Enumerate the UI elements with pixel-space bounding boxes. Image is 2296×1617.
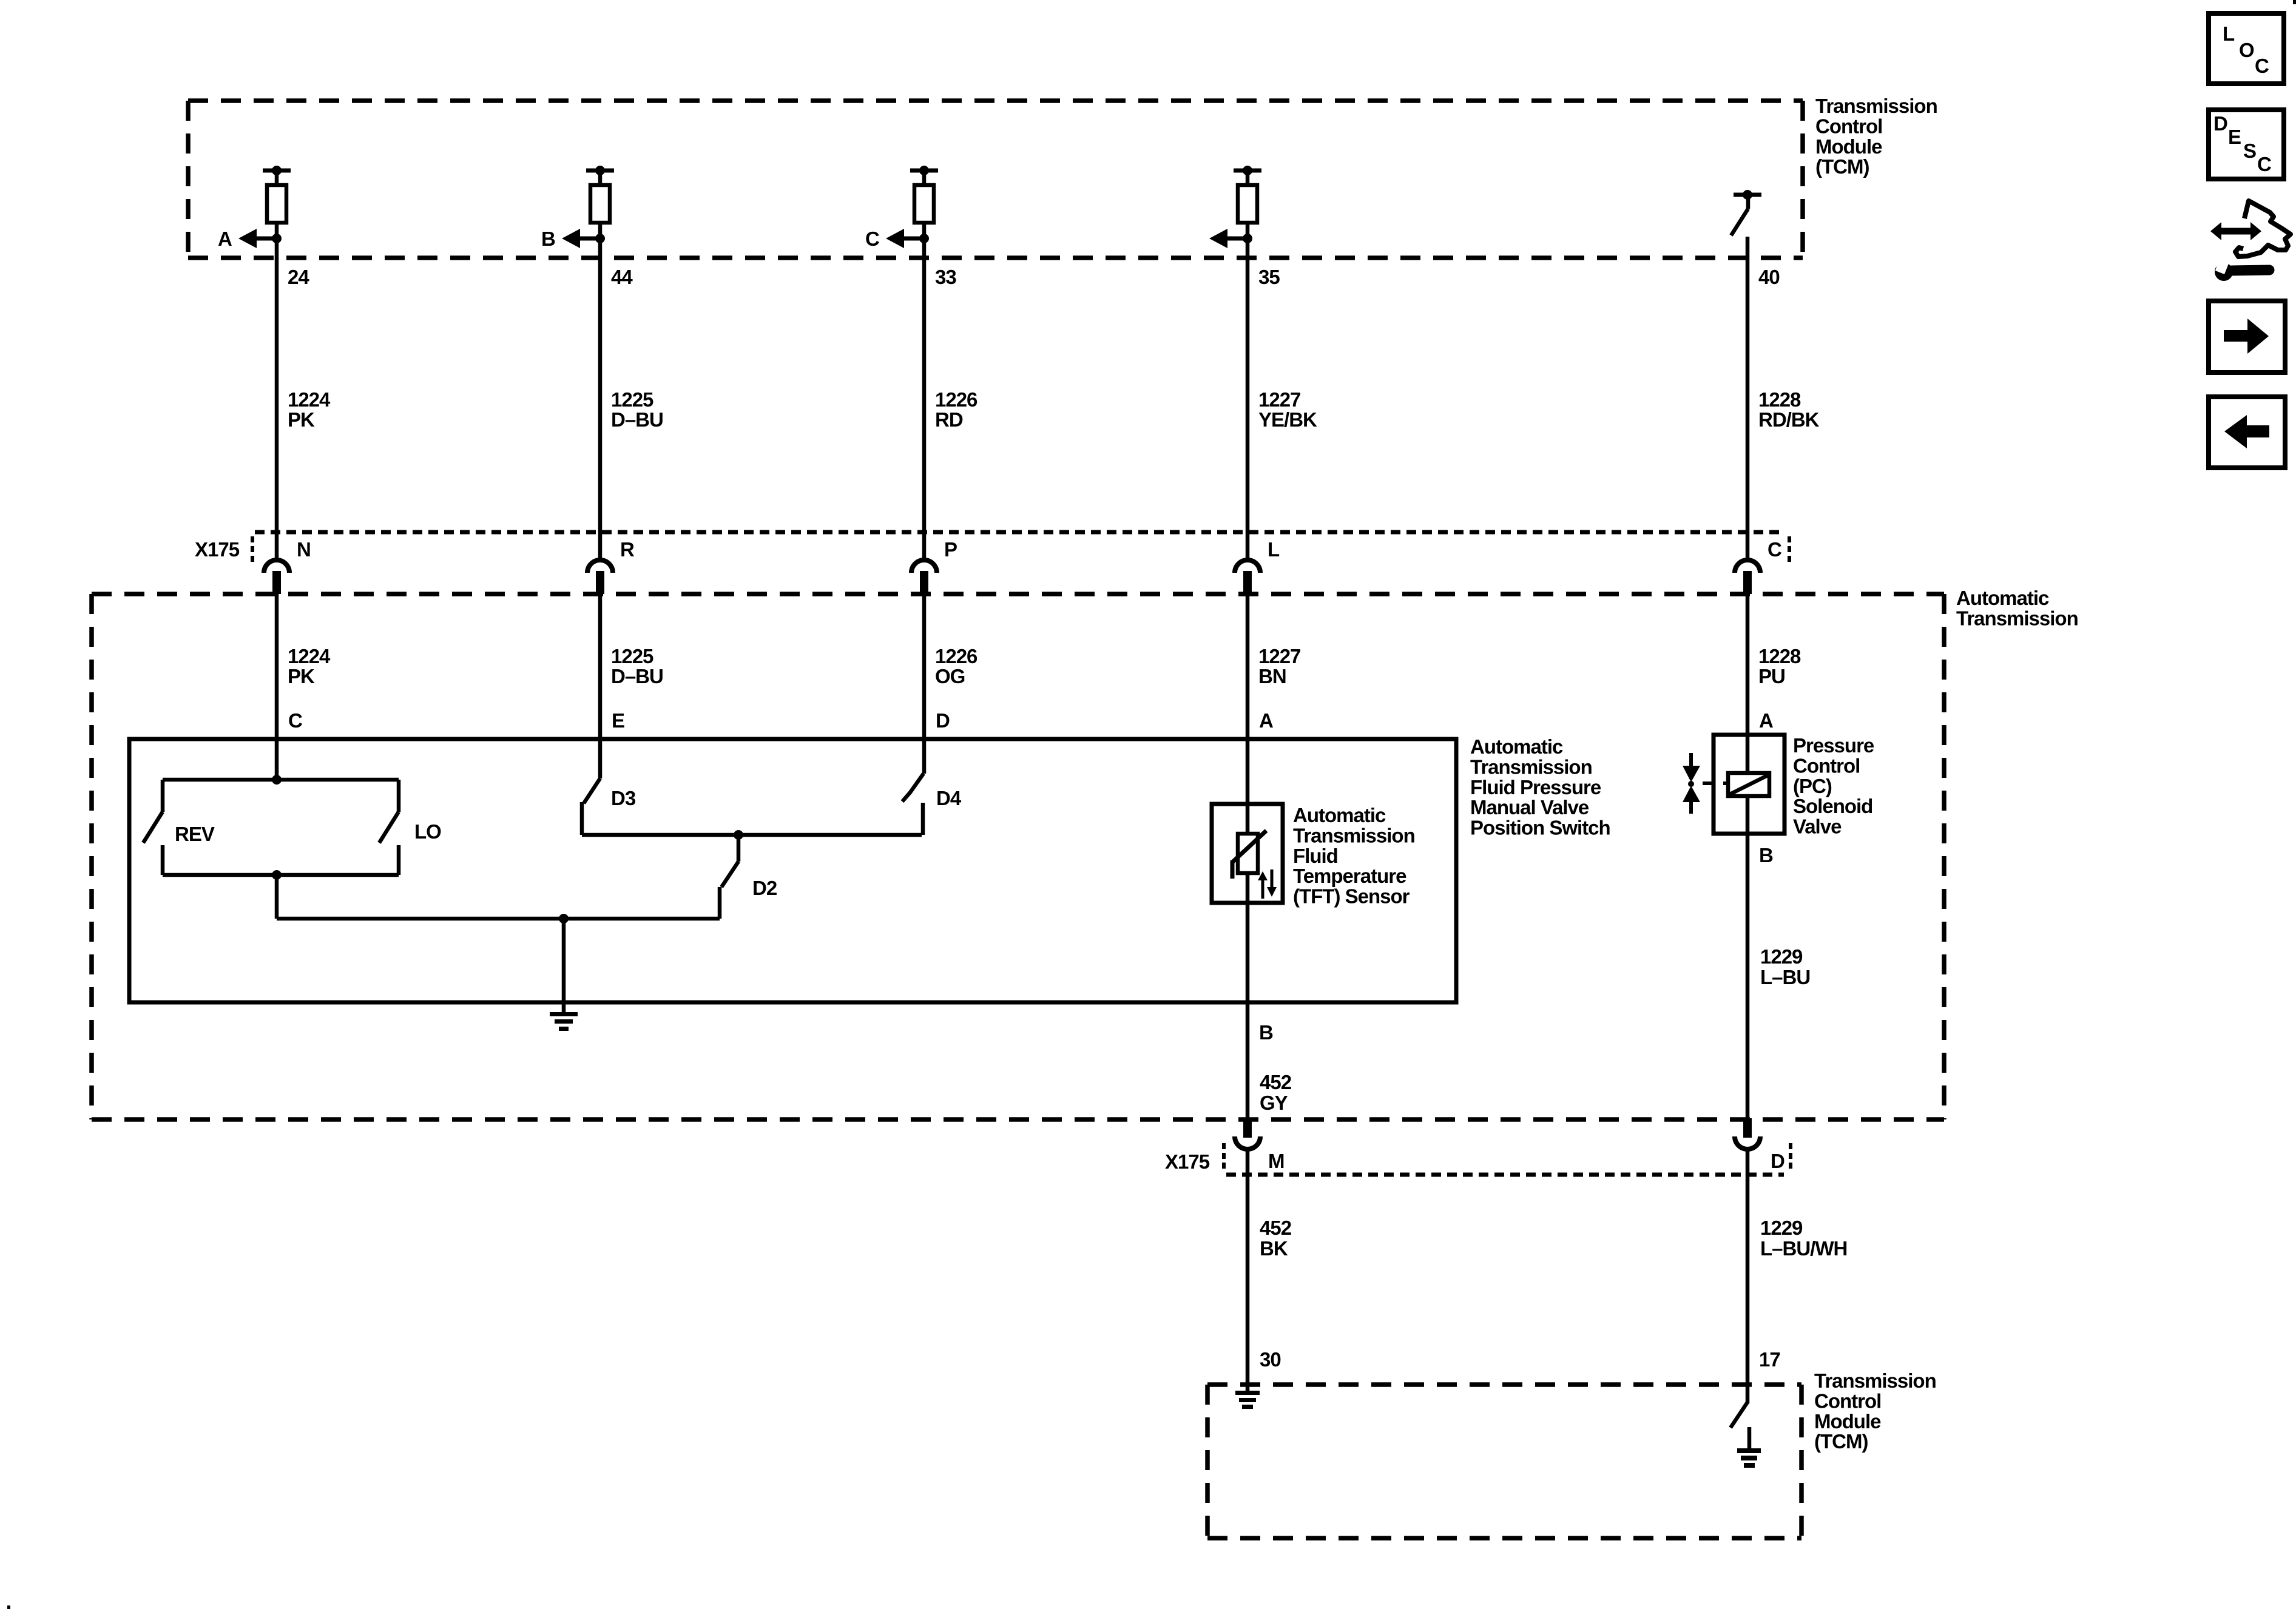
svg-text:PU: PU xyxy=(1758,665,1785,687)
connector X175 terminal M (pin + socket arc) xyxy=(1235,1118,1260,1149)
svg-text:Module: Module xyxy=(1815,135,1882,158)
signal arrow B xyxy=(562,229,605,248)
label: Automatic Transmission Fluid Pressure Manual Valve Position Switch xyxy=(1470,735,1610,839)
svg-text:RD/BK: RD/BK xyxy=(1758,408,1820,431)
svg-text:452: 452 xyxy=(1260,1217,1292,1239)
TCM module box (top, dashed) xyxy=(188,101,1803,258)
svg-text:C: C xyxy=(865,228,879,250)
svg-text:1227: 1227 xyxy=(1258,645,1300,667)
connector X175 terminal R (socket arc + pin) xyxy=(587,560,613,594)
wire label 1224 PK xyxy=(288,388,331,431)
svg-text:D: D xyxy=(936,709,950,732)
connector X175 terminal N (socket arc + pin) xyxy=(264,560,289,594)
svg-text:D: D xyxy=(2213,112,2227,135)
switch D3 xyxy=(582,778,600,835)
wire label 452 BK xyxy=(1260,1217,1292,1260)
wire label 1228 PU (inside transmission) xyxy=(1758,645,1801,687)
svg-text:Automatic: Automatic xyxy=(1293,804,1386,826)
svg-text:O: O xyxy=(2239,39,2254,61)
Automatic Transmission box (dashed) xyxy=(92,594,1944,1119)
wire label 1224 PK (inside transmission) xyxy=(288,645,331,687)
svg-text:C: C xyxy=(2255,55,2269,77)
switch D4 xyxy=(902,774,923,835)
svg-text:A: A xyxy=(218,228,232,250)
svg-text:PK: PK xyxy=(288,665,315,687)
svg-text:(TCM): (TCM) xyxy=(1815,155,1869,178)
svg-text:L: L xyxy=(2223,22,2235,45)
svg-text:33: 33 xyxy=(935,266,956,288)
svg-text:E: E xyxy=(2228,126,2241,148)
svg-text:Control: Control xyxy=(1815,115,1882,137)
svg-text:(TCM): (TCM) xyxy=(1814,1430,1868,1453)
svg-text:D4: D4 xyxy=(936,787,962,809)
connector X175 terminal D (pin + socket arc) xyxy=(1735,1118,1760,1149)
svg-text:BN: BN xyxy=(1258,665,1286,687)
label: Transmission Control Module (TCM) top xyxy=(1815,95,1937,178)
connector X175 row (upper) dotted line xyxy=(255,530,1784,535)
svg-text:17: 17 xyxy=(1759,1348,1780,1371)
svg-text:R: R xyxy=(620,538,635,561)
wire 1227 BN (transmission side) xyxy=(1246,594,1250,1118)
svg-text:RD: RD xyxy=(935,408,963,431)
switch D2 xyxy=(720,835,738,919)
resistor (TCM driver, wire 1225) xyxy=(586,166,614,223)
svg-text:Valve: Valve xyxy=(1793,815,1842,838)
svg-text:LO: LO xyxy=(414,820,441,843)
wire 1225 D-BU (transmission side) xyxy=(598,594,603,778)
wire label 1229 L-BU xyxy=(1760,945,1810,988)
icon: next arrow box xyxy=(2209,301,2285,373)
wire 452 BK (X175 to TCM) xyxy=(1246,1150,1250,1391)
svg-text:44: 44 xyxy=(611,266,633,288)
svg-text:1229: 1229 xyxy=(1760,945,1803,968)
TCM module box (bottom, dashed) xyxy=(1207,1385,1801,1538)
svg-text:1226: 1226 xyxy=(935,645,977,667)
wire label 1227 YE/BK xyxy=(1258,388,1317,431)
link wire D3-D4 xyxy=(582,830,922,840)
svg-text:D2: D2 xyxy=(752,877,777,899)
svg-text:1225: 1225 xyxy=(611,388,653,411)
icon: LOC box xyxy=(2209,13,2284,84)
svg-text:L–BU/WH: L–BU/WH xyxy=(1760,1237,1847,1260)
wire 1224 (TCM to X175) xyxy=(275,223,279,560)
svg-text:A: A xyxy=(1259,709,1273,732)
svg-text:S: S xyxy=(2243,140,2256,162)
svg-text:L: L xyxy=(1268,538,1280,561)
wire 1228 PU (transmission side) xyxy=(1746,594,1750,1118)
switch LO xyxy=(379,780,399,875)
svg-text:E: E xyxy=(612,709,624,732)
X175 separator dash (lower left) xyxy=(1222,1143,1226,1170)
svg-text:D–BU: D–BU xyxy=(611,665,663,687)
svg-text:1224: 1224 xyxy=(288,388,331,411)
ground (TCM pin 30) xyxy=(1235,1391,1260,1409)
svg-text:1224: 1224 xyxy=(288,645,331,667)
svg-text:1228: 1228 xyxy=(1758,388,1801,411)
svg-text:452: 452 xyxy=(1260,1071,1292,1093)
pin labels 24 44 33 35 40 xyxy=(288,266,1780,288)
svg-text:1229: 1229 xyxy=(1760,1217,1803,1239)
wire label 1228 RD/BK xyxy=(1758,388,1820,431)
svg-text:Module: Module xyxy=(1814,1410,1881,1433)
svg-text:(TFT) Sensor: (TFT) Sensor xyxy=(1293,885,1410,908)
svg-text:B: B xyxy=(1759,844,1773,866)
X175 separator dash (upper right) xyxy=(1788,536,1791,564)
svg-text:(PC): (PC) xyxy=(1793,775,1832,797)
valve symbol (double arrow) xyxy=(1683,753,1715,814)
svg-text:Fluid: Fluid xyxy=(1293,845,1338,867)
connector X175 row (lower) dotted line xyxy=(1226,1173,1784,1177)
thermistor symbol xyxy=(1232,831,1266,879)
resistor (TCM driver, wire 1227) xyxy=(1234,166,1261,223)
svg-text:Automatic: Automatic xyxy=(1956,587,2049,609)
switch contact (TCM internal, wire 1228) xyxy=(1731,190,1761,235)
svg-text:M: M xyxy=(1268,1150,1285,1172)
svg-text:Transmission: Transmission xyxy=(1293,824,1415,846)
svg-text:Manual Valve: Manual Valve xyxy=(1470,796,1589,819)
wire label 452 GY xyxy=(1260,1071,1292,1114)
wire 1226 OG (transmission side) xyxy=(922,594,927,774)
signal arrow A xyxy=(238,229,282,248)
wire 1228 (TCM to X175) xyxy=(1746,237,1750,560)
wire label 1227 BN (inside transmission) xyxy=(1258,645,1300,687)
label: Transmission Control Module (TCM) bottom xyxy=(1814,1369,1936,1453)
svg-text:B: B xyxy=(541,228,555,250)
svg-text:Transmission: Transmission xyxy=(1470,755,1592,778)
label: Pressure Control (PC) Solenoid Valve xyxy=(1793,734,1874,838)
wire label 1225 D–BU xyxy=(611,388,663,431)
resistor (TCM driver, wire 1224) xyxy=(263,166,291,223)
ground (position switch common) xyxy=(550,919,578,1031)
signal arrow C xyxy=(886,229,929,248)
page mark bottom left xyxy=(7,1605,10,1609)
svg-text:24: 24 xyxy=(288,266,309,288)
svg-text:35: 35 xyxy=(1258,266,1280,288)
resistor (TCM driver, wire 1226) xyxy=(910,166,938,223)
common ground bus wire xyxy=(277,914,720,923)
wire from REV/LO junction down xyxy=(275,875,279,919)
svg-text:P: P xyxy=(944,538,957,561)
svg-text:GY: GY xyxy=(1260,1092,1288,1114)
solenoid coil symbol xyxy=(1723,773,1769,796)
REV/LO contact loop top wire xyxy=(163,775,399,785)
svg-text:1227: 1227 xyxy=(1258,388,1300,411)
label: Automatic Transmission Fluid Temperature (TFT) Sensor xyxy=(1293,804,1415,908)
svg-text:Transmission: Transmission xyxy=(1956,607,2078,629)
svg-text:Position Switch: Position Switch xyxy=(1470,817,1610,839)
svg-text:1226: 1226 xyxy=(935,388,977,411)
svg-text:L–BU: L–BU xyxy=(1760,966,1810,988)
signal arrow (wire 1227) xyxy=(1209,229,1252,248)
svg-text:Pressure: Pressure xyxy=(1793,734,1874,757)
X175 terminal letters N R P L C xyxy=(297,538,1781,561)
svg-text:B: B xyxy=(1259,1021,1273,1044)
svg-text:1225: 1225 xyxy=(611,645,653,667)
X175 separator dash (lower right) xyxy=(1789,1143,1792,1170)
icon: connector view (double arrow, probe outline, wrench) xyxy=(2210,201,2291,281)
X175 separator dash (upper left) xyxy=(251,536,254,564)
TFT bidirectional arrows xyxy=(1258,869,1277,899)
wire 1226 (TCM to X175) xyxy=(922,223,927,560)
svg-text:X175: X175 xyxy=(195,538,240,561)
svg-text:D3: D3 xyxy=(611,787,636,809)
ground (TCM pin 17) xyxy=(1737,1427,1761,1468)
svg-text:30: 30 xyxy=(1260,1348,1281,1371)
wire label 1229 L-BU/WH xyxy=(1760,1217,1847,1260)
connector X175 terminal L (socket arc + pin) xyxy=(1235,560,1260,594)
svg-text:PK: PK xyxy=(288,408,315,431)
icon: back arrow box xyxy=(2209,397,2285,468)
svg-text:C: C xyxy=(2257,153,2271,175)
svg-text:40: 40 xyxy=(1758,266,1780,288)
svg-text:OG: OG xyxy=(935,665,965,687)
svg-text:Control: Control xyxy=(1793,754,1860,777)
switch contact to ground (TCM pin 17) xyxy=(1730,1402,1747,1428)
switch/solenoid terminal letters C E D A A xyxy=(288,709,1773,732)
wire label 1226 OG (inside transmission) xyxy=(935,645,977,687)
svg-text:A: A xyxy=(1759,709,1773,732)
svg-text:C: C xyxy=(288,709,302,732)
svg-text:Transmission: Transmission xyxy=(1815,95,1937,117)
svg-text:Control: Control xyxy=(1814,1389,1881,1412)
switch REV xyxy=(143,780,163,875)
wire label 1226 RD xyxy=(935,388,977,431)
svg-text:Temperature: Temperature xyxy=(1293,865,1406,887)
svg-text:REV: REV xyxy=(175,823,215,845)
svg-text:N: N xyxy=(297,538,311,561)
wire 1229 L-BU/WH (X175 to TCM) xyxy=(1746,1150,1750,1403)
wire 1227 (TCM to X175) xyxy=(1246,223,1250,560)
REV/LO contact loop bottom wire xyxy=(163,870,399,880)
connector X175 terminal C (socket arc + pin) xyxy=(1735,560,1760,594)
svg-text:Automatic: Automatic xyxy=(1470,735,1563,758)
wire 1225 (TCM to X175) xyxy=(598,223,603,560)
icon: DESC box xyxy=(2209,110,2284,179)
label: Automatic Transmission xyxy=(1956,587,2078,629)
page mark top right xyxy=(2293,0,2296,4)
connector X175 terminal P (socket arc + pin) xyxy=(911,560,937,594)
Pressure Control solenoid box xyxy=(1714,735,1784,834)
TFT sensor box xyxy=(1212,804,1283,903)
svg-text:C: C xyxy=(1768,538,1781,561)
svg-text:D: D xyxy=(1771,1150,1784,1172)
svg-text:Solenoid: Solenoid xyxy=(1793,795,1872,817)
svg-text:Fluid Pressure: Fluid Pressure xyxy=(1470,776,1601,798)
svg-text:BK: BK xyxy=(1260,1237,1288,1260)
Manual Valve Position Switch box xyxy=(129,739,1456,1002)
svg-text:1228: 1228 xyxy=(1758,645,1801,667)
wire 1224 PK (transmission side) xyxy=(275,594,279,780)
svg-text:YE/BK: YE/BK xyxy=(1258,408,1317,431)
svg-text:Transmission: Transmission xyxy=(1814,1369,1936,1392)
svg-text:D–BU: D–BU xyxy=(611,408,663,431)
svg-text:X175: X175 xyxy=(1165,1150,1210,1173)
wire label 1225 D–BU (inside transmission) xyxy=(611,645,663,687)
